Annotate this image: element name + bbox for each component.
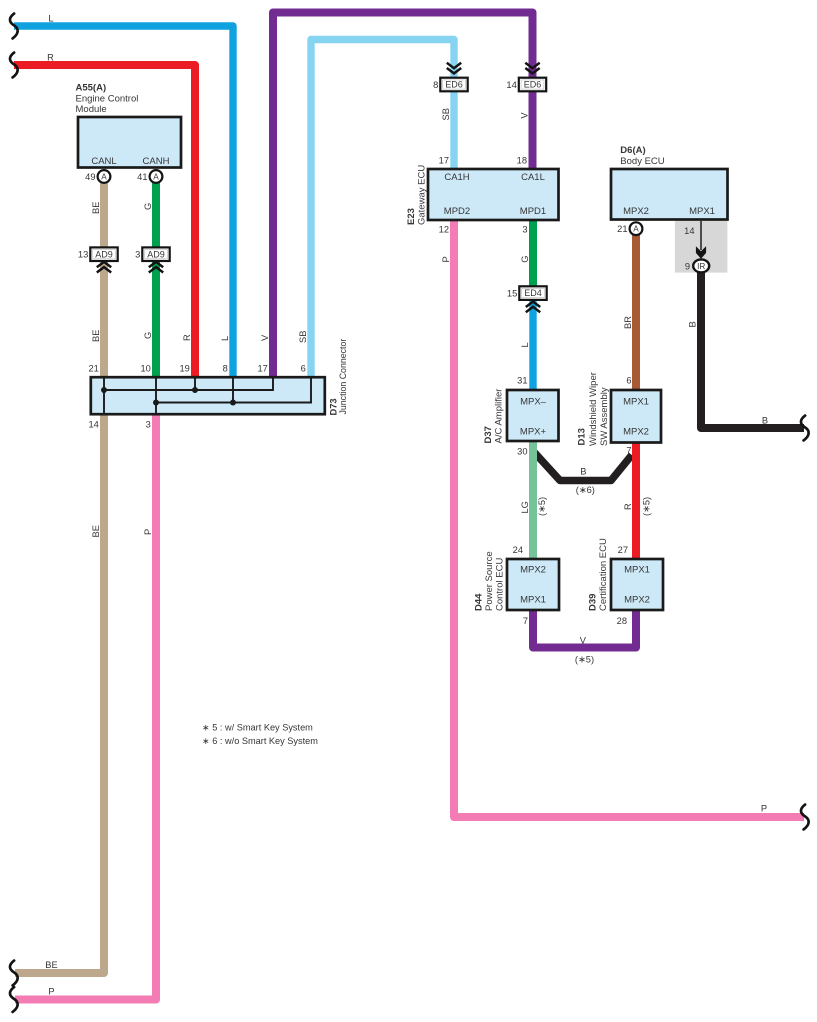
svg-text:P: P (143, 529, 153, 535)
svg-text:3: 3 (522, 225, 527, 235)
svg-text:17: 17 (439, 156, 449, 166)
svg-text:18: 18 (517, 156, 527, 166)
svg-text:B: B (687, 321, 697, 327)
svg-text:P: P (761, 804, 767, 814)
svg-text:L: L (48, 14, 53, 24)
connector ED6 (pin 14) (506, 78, 546, 92)
certification ECU D39 (611, 559, 663, 610)
svg-text:15: 15 (507, 288, 517, 299)
connector ED6 (pin 8) (433, 78, 468, 92)
svg-text:V: V (519, 112, 529, 119)
svg-text:D37: D37 (483, 426, 494, 443)
svg-text:(∗5): (∗5) (642, 497, 652, 516)
wire-break squiggle B right (801, 416, 809, 441)
wire-break squiggle P right (801, 805, 809, 830)
wire-break squiggle BE bottom left (10, 961, 18, 986)
svg-text:R: R (182, 334, 192, 341)
svg-text:G: G (143, 332, 153, 339)
wire P junction 3 to bottom left (15, 414, 156, 1000)
svg-text:B: B (580, 467, 586, 477)
wire BE junction 14 to bottom left (15, 414, 104, 973)
svg-text:BE: BE (91, 330, 101, 342)
wire-break squiggle P bottom left (10, 987, 18, 1012)
wire-break squiggle L left (10, 14, 18, 39)
wire BR body MPX2 to wiper MPX1 (632, 234, 640, 392)
svg-text:Junction Connector: Junction Connector (338, 339, 348, 415)
svg-text:B: B (762, 416, 768, 426)
svg-text:A: A (633, 225, 639, 234)
svg-text:10: 10 (140, 363, 150, 373)
svg-text:MPX1: MPX1 (689, 206, 715, 217)
svg-text:V: V (260, 334, 270, 341)
svg-text:14: 14 (506, 79, 516, 90)
svg-text:ED6: ED6 (524, 80, 542, 90)
svg-text:30: 30 (517, 447, 527, 457)
connector joint A (ECM pin 49) (98, 170, 111, 183)
wire SB junction 6 to gateway CA1H (311, 40, 454, 379)
svg-text:R: R (47, 53, 54, 63)
svg-text:R: R (623, 503, 633, 510)
svg-text:L: L (220, 336, 230, 341)
junction connector D73 (91, 377, 325, 414)
connector AD9 (pin 13) (78, 247, 118, 261)
connector pass-through chevron AD9 left (97, 262, 111, 273)
svg-text:CANL: CANL (91, 156, 116, 167)
svg-text:49: 49 (85, 172, 95, 182)
wire-break squiggle R left (10, 53, 18, 78)
svg-text:D39: D39 (588, 594, 599, 611)
svg-text:MPX2: MPX2 (623, 206, 649, 217)
gateway ECU E23 (428, 169, 559, 220)
svg-text:24: 24 (513, 545, 523, 555)
svg-text:AD9: AD9 (147, 249, 165, 259)
engine control module A55(A) (78, 117, 181, 168)
svg-text:MPX2: MPX2 (623, 427, 649, 438)
connector pass-through chevron ED6 right (525, 63, 539, 74)
svg-text:MPX1: MPX1 (624, 565, 650, 576)
svg-text:BR: BR (623, 316, 633, 329)
wire B body IR to right edge (701, 270, 804, 428)
svg-text:IR: IR (697, 262, 705, 271)
svg-text:(∗5): (∗5) (537, 497, 547, 516)
svg-text:G: G (520, 255, 530, 262)
svg-text:∗ 6 : w/o Smart Key System: ∗ 6 : w/o Smart Key System (202, 736, 318, 746)
svg-text:MPX2: MPX2 (624, 595, 650, 606)
svg-text:MPD2: MPD2 (444, 206, 470, 217)
svg-text:Control ECU: Control ECU (495, 558, 506, 611)
svg-text:41: 41 (137, 172, 147, 182)
svg-text:ED4: ED4 (524, 288, 542, 298)
wire G ECM CANH to junction 10 (152, 182, 160, 378)
svg-text:9: 9 (685, 261, 690, 271)
svg-text:CANH: CANH (143, 156, 170, 167)
svg-text:7: 7 (626, 446, 631, 456)
svg-text:P: P (48, 987, 54, 997)
D73 junction dots (101, 387, 236, 406)
svg-text:21: 21 (617, 224, 627, 234)
svg-text:A55(A): A55(A) (76, 83, 107, 94)
shield area (gray) under body ECU MPX1 (675, 221, 728, 273)
connector joint IR (pin 9) (693, 259, 709, 272)
wire R (CAN bus from left) (14, 65, 195, 378)
svg-text:CA1L: CA1L (521, 172, 545, 183)
svg-text:SB: SB (441, 108, 451, 120)
svg-text:D73: D73 (328, 398, 338, 415)
svg-text:SB: SB (298, 331, 308, 343)
connector AD9 (pin 3) (135, 247, 170, 261)
body ECU D6(A) (611, 169, 728, 220)
svg-text:Certification ECU: Certification ECU (598, 538, 609, 611)
svg-text:(∗6): (∗6) (576, 485, 595, 495)
A/C amplifier D37 (507, 390, 559, 441)
svg-text:Module: Module (76, 104, 107, 115)
svg-text:12: 12 (439, 225, 449, 235)
svg-text:MPX–: MPX– (520, 397, 547, 408)
wire LG A/C amp MPX+ to D44 MPX2 (529, 439, 537, 561)
svg-text:D13: D13 (577, 428, 588, 445)
wire G gateway MPD1 to ED4 (529, 218, 537, 299)
svg-text:MPX2: MPX2 (520, 565, 546, 576)
svg-text:D6(A): D6(A) (620, 145, 645, 156)
D73 internal bus wiring (104, 377, 311, 414)
arrowhead on internal lead (696, 246, 706, 259)
svg-text:A/C Amplifier: A/C Amplifier (494, 389, 505, 444)
svg-text:Engine Control: Engine Control (76, 94, 139, 105)
svg-text:8: 8 (223, 363, 228, 373)
svg-text:17: 17 (257, 363, 267, 373)
svg-text:A: A (101, 173, 107, 182)
svg-text:G: G (143, 203, 153, 210)
connector pass-through chevron AD9 right (149, 262, 163, 273)
power source control ECU D44 (507, 559, 559, 610)
svg-text:13: 13 (78, 249, 88, 260)
connector pass-through chevron ED6 left (447, 63, 461, 74)
svg-text:MPX1: MPX1 (623, 397, 649, 408)
svg-text:7: 7 (523, 616, 528, 626)
svg-text:P: P (441, 256, 451, 262)
connector joint A (body pin 21) (630, 222, 643, 235)
svg-text:6: 6 (626, 376, 631, 386)
svg-text:21: 21 (88, 363, 98, 373)
svg-text:19: 19 (179, 363, 189, 373)
svg-text:A: A (153, 173, 159, 182)
connector ED4 (pin 15) (507, 286, 547, 300)
svg-text:3: 3 (146, 420, 151, 430)
svg-text:D44: D44 (474, 593, 485, 611)
svg-text:Windshield Wiper: Windshield Wiper (588, 372, 599, 446)
svg-text:28: 28 (617, 616, 627, 626)
svg-text:L: L (520, 342, 530, 347)
svg-text:BE: BE (45, 960, 57, 970)
svg-text:BE: BE (91, 525, 101, 537)
svg-text:LG: LG (520, 501, 530, 513)
windshield wiper SW assembly D13 (611, 390, 661, 443)
svg-text:AD9: AD9 (95, 249, 113, 259)
svg-text:SW Assembly: SW Assembly (599, 387, 610, 446)
svg-text:14: 14 (88, 420, 98, 430)
svg-text:MPX1: MPX1 (520, 595, 546, 606)
wire L ED4 to A/C amplifier MPX- (529, 299, 536, 392)
connector joint A (ECM pin 41) (150, 170, 163, 183)
svg-text:8: 8 (433, 79, 438, 90)
svg-text:3: 3 (135, 249, 140, 260)
wire B jog MPX+ to wiper MPX2 (*6) (534, 452, 632, 481)
svg-text:6: 6 (301, 363, 306, 373)
svg-text:(∗5): (∗5) (575, 654, 594, 664)
wire L (CAN bus from left) (14, 26, 233, 378)
svg-text:ED6: ED6 (445, 80, 463, 90)
svg-text:Gateway ECU: Gateway ECU (417, 165, 428, 225)
svg-text:V: V (580, 635, 587, 645)
svg-text:∗ 5 : w/ Smart Key System: ∗ 5 : w/ Smart Key System (202, 723, 313, 733)
connector pass-through chevron ED4 (526, 302, 540, 313)
svg-text:CA1H: CA1H (444, 172, 469, 183)
svg-text:BE: BE (91, 202, 101, 214)
svg-text:31: 31 (517, 375, 527, 385)
wire BE ECM CANL to junction 21 (100, 182, 108, 378)
wire V junction 17 to gateway CA1L (273, 13, 533, 379)
svg-text:Body ECU: Body ECU (620, 156, 664, 167)
wire R wiper MPX2 to D39 MPX1 (*5) (632, 441, 640, 561)
wire P gateway MPD2 to right edge (454, 218, 804, 817)
svg-text:Power Source: Power Source (484, 551, 495, 611)
wire V D44 MPX1 to D39 MPX2 (*5) (533, 608, 636, 648)
svg-text:MPD1: MPD1 (520, 206, 546, 217)
svg-text:E23: E23 (406, 208, 417, 225)
svg-text:14: 14 (684, 226, 694, 236)
svg-text:MPX+: MPX+ (520, 427, 547, 438)
svg-text:27: 27 (618, 545, 628, 555)
